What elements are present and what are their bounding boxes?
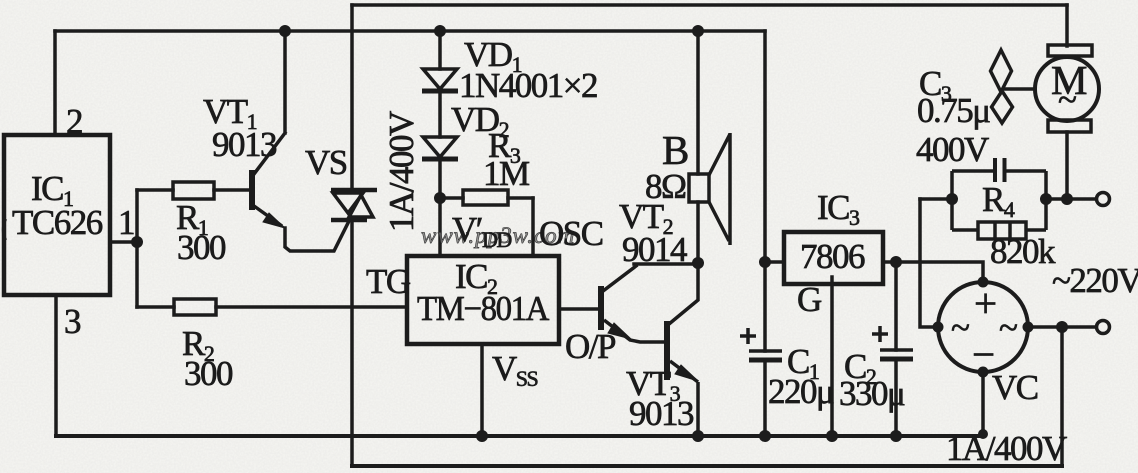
svg-text:7806: 7806 (800, 237, 865, 276)
wire: R1 leads (137, 188, 250, 192)
wire: ground rail (56, 434, 983, 438)
wire: motor bottom lead (1065, 132, 1069, 199)
wire: outer mains loop right edge (1060, 327, 1064, 466)
node: C2 on ground rail (890, 430, 902, 442)
node: VC minus on ground rail (978, 429, 988, 439)
wire: speaker top feed (696, 31, 700, 174)
svg-text:9013: 9013 (212, 125, 277, 164)
node: VDD / R3 (434, 192, 446, 204)
node: combo right (1040, 193, 1052, 205)
wire: IC1 pin3 drop (54, 295, 58, 436)
svg-text:O/P: O/P (565, 327, 616, 366)
wire: R4/C3 combo right lead to upper terminal (1046, 197, 1096, 201)
capacitor C3 (in parallel combo, top branch) (952, 158, 1046, 230)
svg-text:VS: VS (305, 143, 347, 182)
node: combo left (946, 193, 958, 205)
wire: VT1 emitter to VS gate (285, 221, 349, 251)
svg-text:400V: 400V (916, 130, 989, 169)
wire: mains left edge upper (to VS) (350, 5, 354, 191)
wire: mains left edge lower (VS to bottom corner) (350, 220, 354, 466)
wire: OSC pin drop (531, 198, 535, 256)
motor M (1035, 45, 1099, 132)
speaker B (689, 133, 730, 245)
node: IC1 pin1 (131, 236, 143, 248)
capacitor C1 (electrolytic 220u) (740, 328, 782, 360)
svg-text:~220V: ~220V (1052, 261, 1138, 300)
node: 7806 output / C1 (759, 256, 771, 268)
wire: R4/C3 combo left lead (920, 197, 952, 201)
wire: R3 leads (440, 196, 533, 200)
wire: VT3 collector riser (669, 263, 698, 324)
wire: IC1 pin1 lead (110, 240, 137, 244)
wire: +6V top rail (55, 29, 765, 33)
bridge rectifier VC (933, 277, 1034, 378)
node: VSS on ground rail (476, 430, 488, 442)
wire: C2 upper lead (894, 262, 898, 350)
IC U3: IC3 7806 box (784, 232, 883, 284)
IC U1: IC1 TC626 box (4, 135, 110, 295)
capacitor C2 (electrolytic 330u) (872, 326, 913, 359)
wire: VT1 collector to +6V rail (254, 31, 285, 174)
node: VT1 collector on +6V rail (279, 25, 291, 37)
resistor R4 (parallel combo, bottom branch) (952, 222, 1046, 239)
node: VC right / right edge (1056, 321, 1068, 333)
node: speaker bottom / collectors (692, 257, 704, 269)
wire: VT2 collector to speaker node (603, 264, 698, 291)
resistor R3 (463, 190, 508, 205)
terminal: lower mains terminal (1097, 321, 1110, 334)
svg-text:220μ: 220μ (768, 372, 834, 411)
svg-text:820k: 820k (990, 232, 1056, 271)
transistor Q2: VT2 9014 (601, 286, 667, 342)
wire: R2 to IC2 TG pin (216, 305, 407, 309)
wire: 7806 output lead (765, 260, 784, 264)
node: speaker feed on +6V rail (692, 25, 704, 37)
svg-text:TC626: TC626 (12, 203, 103, 242)
wire: VD chain column (VDD) (438, 31, 442, 256)
wire: IC2 VSS pin to ground (480, 344, 484, 436)
diode VD2 (422, 137, 458, 159)
fan blades on motor shaft (991, 50, 1036, 123)
svg-text:+: + (974, 280, 996, 326)
svg-text:~: ~ (951, 308, 969, 347)
wire: C1 lower lead (763, 360, 767, 436)
svg-text:1M: 1M (483, 154, 530, 193)
IC U2: IC2 TM-801A box (407, 256, 559, 344)
resistor R2 (174, 299, 216, 315)
svg-text:9014: 9014 (622, 230, 687, 269)
svg-text:~: ~ (1058, 80, 1076, 119)
node: VD1 anode on +6V rail (434, 25, 446, 37)
svg-text:TG: TG (366, 262, 411, 301)
transistor Q3: VT3 9013 (667, 321, 698, 436)
diode VD1 (422, 69, 458, 91)
svg-text:300: 300 (184, 354, 233, 393)
resistor R1 (173, 182, 214, 199)
wire: +6V rail drop to 7806 output / C1 (763, 31, 767, 351)
svg-text:2: 2 (66, 102, 82, 141)
wire: VC right to lower terminal (1026, 325, 1096, 329)
svg-text:OSC: OSC (539, 214, 603, 253)
wire: VC minus to ground rail (981, 370, 985, 436)
wire: speaker bottom to collector node (696, 202, 700, 263)
node: 7806 input / C2 (890, 256, 902, 268)
node: C1 on ground rail (759, 430, 771, 442)
wire: outer mains loop bottom edge (352, 464, 1062, 468)
svg-text:300: 300 (177, 228, 226, 267)
node: G on ground rail (826, 430, 838, 442)
svg-text:VC: VC (992, 368, 1038, 407)
svg-text:G: G (797, 280, 822, 319)
wire: 7806 ground pin G (830, 277, 834, 436)
svg-text:0.75μ: 0.75μ (917, 91, 990, 130)
wire: C2 lower lead (894, 359, 898, 436)
svg-text:1A/400V: 1A/400V (946, 429, 1067, 468)
svg-text:−: − (972, 331, 994, 377)
wire: IC1 pin2 riser (53, 31, 57, 135)
wire: motor top stub from mains corner (1065, 5, 1069, 46)
wire: IC2 O/P to VT2 base (559, 307, 599, 311)
svg-text:3: 3 (64, 302, 81, 341)
thyristor VS (triac) (331, 190, 377, 220)
wire: 7806 input from VC+ (883, 262, 983, 284)
svg-text:330μ: 330μ (839, 374, 905, 413)
wire: outer mains loop top edge (352, 3, 1067, 7)
terminal: upper mains terminal (1097, 193, 1110, 206)
node: motor / upper terminal (1061, 193, 1073, 205)
wire: node1 vertical between R1 and R2 (135, 190, 139, 307)
svg-text:~: ~ (999, 308, 1017, 347)
node: VT3 emitter on ground rail (692, 430, 704, 442)
wire: R2 left lead (137, 305, 174, 309)
svg-text:TM−801A: TM−801A (417, 289, 550, 328)
transistor Q1: VT1 9013 (252, 170, 285, 228)
wire: VC left AC input riser (920, 199, 938, 327)
svg-text:9013: 9013 (629, 394, 694, 433)
svg-text:1: 1 (118, 203, 134, 242)
svg-text:1A/400V: 1A/400V (382, 111, 421, 232)
